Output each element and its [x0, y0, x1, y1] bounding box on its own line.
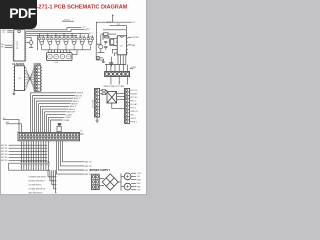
battery B1 [96, 56, 102, 59]
label J1 [80, 133, 84, 135]
page background [0, 0, 149, 198]
wires U2 to CON5 [105, 55, 128, 72]
crystal Y1 [110, 39, 116, 46]
resistor R11 [100, 89, 107, 93]
svg-text:NC --: NC -- [131, 115, 136, 117]
svg-text:P1.2: P1.2 [89, 33, 93, 35]
wire COM left 1 [3, 120, 19, 133]
svg-text:DS1302: DS1302 [132, 37, 140, 39]
labels right nets [85, 162, 93, 176]
wire matrix bottom bus [9, 163, 50, 170]
label +5V rail [62, 20, 74, 22]
diode row D1-D12 [9, 162, 50, 165]
svg-text:NET P3: NET P3 [85, 166, 93, 168]
svg-text:-271-1 PCB SCHEMATIC DIAGRAM: -271-1 PCB SCHEMATIC DIAGRAM [37, 4, 128, 10]
svg-text:89C2051: 89C2051 [17, 40, 19, 49]
svg-text:SCL IN: SCL IN [131, 97, 137, 99]
ic U4 opto body [107, 92, 117, 103]
capacitor C2 [104, 46, 107, 49]
transistor driver row Q1-Q7 with base resistors [38, 36, 93, 50]
wires power outputs [131, 173, 136, 190]
node TP1 test point [112, 15, 114, 23]
ic U3 pins [13, 67, 25, 89]
svg-text:SDA IN: SDA IN [131, 93, 138, 96]
labels bottom nets [29, 177, 48, 195]
svg-text:J1: J1 [80, 130, 82, 132]
wires J1 to right net labels [57, 141, 84, 174]
svg-text:SEG F: SEG F [70, 106, 77, 108]
wire net stub left of U2 [96, 44, 104, 60]
ic U2 pins [116, 30, 128, 53]
svg-text:MODE SW KEY2: MODE SW KEY2 [29, 181, 46, 183]
svg-text:KEY R3: KEY R3 [1, 151, 7, 153]
labels power nets [137, 173, 142, 192]
svg-text:RP1: RP1 [58, 124, 61, 126]
connector CON8 body [34, 66, 42, 91]
svg-text:GND 0V: GND 0V [131, 111, 138, 113]
svg-text:P3.7: P3.7 [86, 29, 90, 31]
svg-text:CON8: CON8 [34, 62, 42, 66]
capacitor E2 [124, 183, 131, 190]
capacitor C1 [104, 41, 107, 44]
svg-text:SEG DP: SEG DP [67, 112, 75, 114]
svg-text:CLK 1: CLK 1 [131, 108, 136, 110]
svg-text:IO DAT: IO DAT [131, 103, 138, 106]
labels staircase nets [63, 92, 83, 122]
svg-text:VDD: VDD [137, 183, 142, 185]
svg-text:KEY R6: KEY R6 [1, 160, 7, 162]
svg-text:+5V R20: +5V R20 [63, 19, 70, 21]
svg-text:KEY R4: KEY R4 [1, 154, 7, 156]
ic U2 body [117, 36, 126, 55]
wires U1 left with labels [5, 30, 13, 47]
transistor Q8 [26, 37, 33, 48]
svg-text:SEG G: SEG G [69, 109, 76, 111]
transistor Q9 [97, 35, 104, 53]
svg-text:KEY R5: KEY R5 [1, 157, 7, 159]
svg-text:SEG B: SEG B [75, 95, 82, 97]
ground U3 [12, 91, 15, 96]
svg-text:KEY R2: KEY R2 [1, 148, 7, 150]
svg-text:COM1: COM1 [66, 114, 73, 116]
svg-text:NET P4: NET P4 [85, 162, 93, 164]
wire xtal top [103, 26, 126, 30]
svg-text:+12V: +12V [137, 173, 142, 175]
svg-text:CON5: CON5 [131, 67, 136, 69]
svg-text:RESET THE CITY TIME: RESET THE CITY TIME [104, 86, 125, 88]
connector J1 body [18, 132, 80, 140]
svg-text:GND: GND [137, 179, 142, 181]
ground CON4 [96, 117, 99, 123]
svg-text:COM2: COM2 [65, 117, 72, 119]
svg-text:COM3: COM3 [63, 120, 70, 122]
svg-text:DS1: DS1 [55, 62, 59, 64]
svg-text:LED K: LED K [131, 118, 137, 120]
connector CON3 right [125, 88, 131, 123]
svg-text:P3.1: P3.1 [1, 46, 5, 48]
wires BR1 to regulators [118, 173, 124, 191]
wire collector rail [42, 49, 91, 51]
svg-text:RST 1: RST 1 [131, 101, 136, 103]
ic U3 body [15, 66, 25, 91]
labels CON3 pins [131, 90, 138, 124]
wires U2 right labels [128, 37, 131, 45]
wire COM left 2 [6, 124, 21, 133]
capacitor C3 [102, 59, 105, 63]
resistor R14 [103, 33, 110, 40]
node dot U2 left [109, 40, 110, 41]
svg-text:NET P1: NET P1 [85, 174, 93, 176]
svg-text:POWER SUPPLY: POWER SUPPLY [90, 168, 111, 172]
svg-text:POWER SW KEY1: POWER SW KEY1 [29, 177, 48, 179]
connector CON4 left [95, 88, 100, 117]
connector CON2 power [92, 174, 100, 189]
svg-text:SEG C: SEG C [74, 98, 81, 100]
wire matrix columns [21, 141, 48, 170]
svg-text:SET SW KEY5: SET SW KEY5 [29, 193, 44, 195]
svg-text:UP SW KEY3: UP SW KEY3 [29, 185, 43, 187]
bridge rectifier BR1 [102, 174, 118, 190]
connector CON5 body [105, 71, 130, 76]
wire U4 bottom [112, 103, 125, 109]
wires CON5 down [111, 77, 128, 85]
label CON5 [130, 67, 134, 69]
wires CON2 to BR1 [99, 179, 104, 186]
svg-text:SEG E: SEG E [71, 104, 78, 106]
node dot U2 left 2 [114, 45, 115, 46]
resistor R12 [100, 93, 107, 95]
wires to bottom net labels [48, 170, 57, 193]
capacitor E1 [124, 173, 131, 180]
svg-text:X1: X1 [2, 32, 4, 34]
wire display right [72, 50, 77, 55]
resistor RP1 [57, 124, 61, 132]
wire U2 bottom jog [112, 49, 116, 56]
ic U1 pins [13, 32, 27, 60]
svg-text:PWR 1: PWR 1 [131, 122, 137, 124]
svg-text:UP DOWN: UP DOWN [93, 99, 95, 108]
wire column to display [37, 35, 38, 50]
wires U3 to CON8 crossover [26, 67, 35, 89]
wires U4 right [117, 94, 125, 100]
wire bus P1 port [26, 27, 92, 37]
wire staircase bus to J1 [31, 93, 76, 133]
svg-text:R2 R9: R2 R9 [47, 36, 51, 38]
svg-text:VCC 5V: VCC 5V [131, 90, 138, 92]
svg-text:KEY R1: KEY R1 [1, 145, 7, 147]
wire VCC rail top [96, 21, 131, 44]
svg-text:DOWN SW KEY4: DOWN SW KEY4 [29, 189, 46, 191]
labels bus nets [82, 27, 93, 35]
ic U1 body [14, 30, 25, 61]
led display DS1 [47, 50, 72, 61]
labels matrix rows [1, 145, 7, 162]
wire matrix rows [9, 145, 48, 160]
svg-text:R13: R13 [117, 24, 120, 26]
svg-text:SEG A: SEG A [77, 92, 84, 95]
svg-text:SEG D: SEG D [73, 101, 80, 103]
capacitor C4 [109, 57, 113, 66]
resistor R10 [101, 33, 116, 36]
pdf badge [0, 0, 37, 29]
svg-text:R1 R8: R1 R8 [38, 36, 42, 38]
